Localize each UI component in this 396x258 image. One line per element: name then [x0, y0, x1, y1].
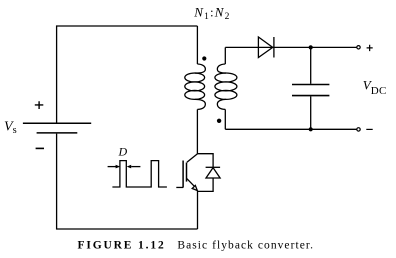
- svg-text:Basic flyback converter.: Basic flyback converter.: [177, 240, 314, 252]
- svg-text:N1:N2: N1:N2: [193, 5, 230, 23]
- svg-text:Vs: Vs: [4, 120, 17, 137]
- svg-text:FIGURE 1.12: FIGURE 1.12: [78, 240, 166, 252]
- svg-text:VDC: VDC: [363, 78, 387, 98]
- svg-text:D: D: [118, 144, 128, 158]
